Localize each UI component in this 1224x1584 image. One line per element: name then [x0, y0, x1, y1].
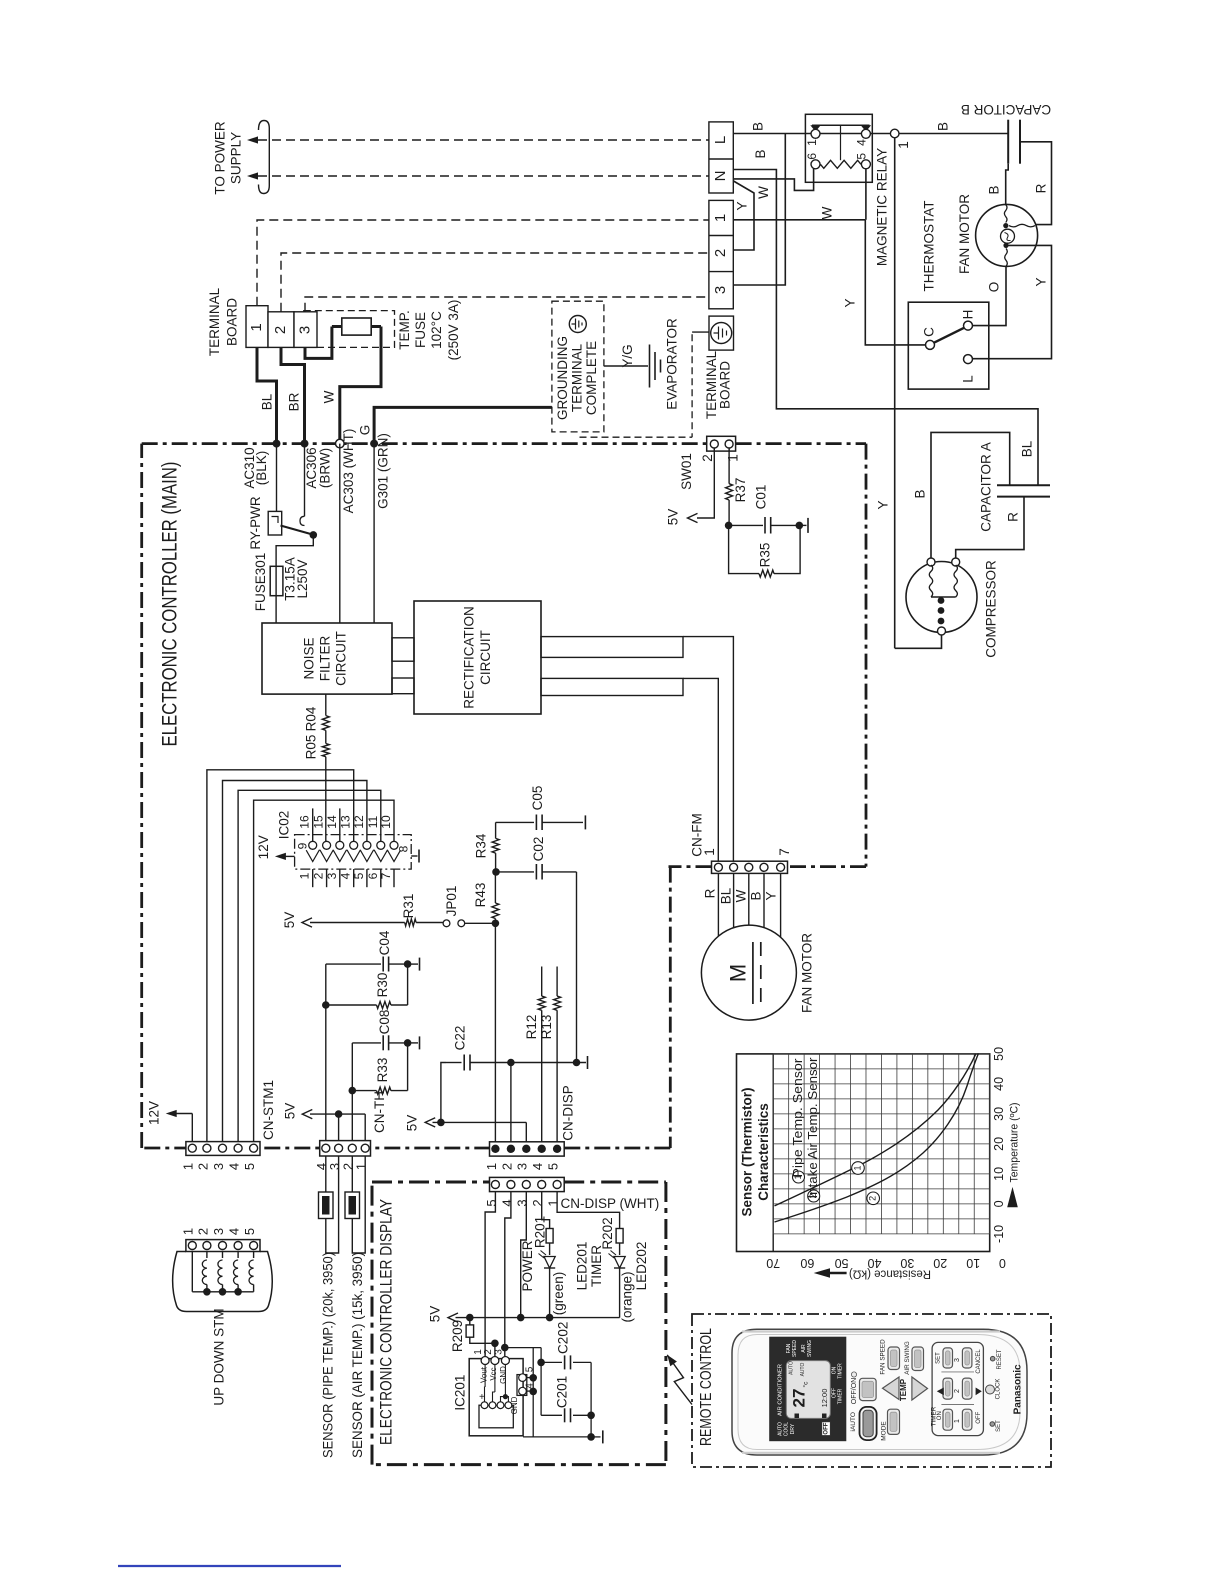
svg-text:C02: C02: [531, 837, 546, 862]
svg-text:4: 4: [227, 1228, 242, 1235]
svg-text:2: 2: [195, 1163, 210, 1170]
svg-text:5: 5: [525, 1366, 536, 1372]
svg-text:L250V: L250V: [295, 559, 310, 598]
svg-text:2: 2: [483, 1349, 494, 1355]
svg-text:SWING: SWING: [807, 1340, 813, 1357]
svg-text:RECTIFICATION: RECTIFICATION: [462, 606, 477, 709]
svg-text:5V: 5V: [283, 1103, 298, 1120]
svg-text:13: 13: [339, 815, 353, 829]
svg-text:FAN MOTOR: FAN MOTOR: [800, 933, 815, 1013]
svg-text:B: B: [936, 122, 951, 131]
svg-text:3: 3: [515, 1163, 530, 1170]
svg-text:R: R: [703, 888, 718, 898]
svg-text:1: 1: [702, 848, 717, 856]
svg-text:102°C: 102°C: [429, 311, 444, 349]
svg-text:CN-STM1: CN-STM1: [261, 1080, 276, 1140]
svg-text:3: 3: [954, 1358, 961, 1362]
svg-text:1: 1: [546, 1199, 561, 1206]
svg-text:20: 20: [933, 1256, 947, 1270]
svg-text:5V: 5V: [428, 1306, 443, 1323]
svg-text:FUSE: FUSE: [413, 312, 428, 348]
svg-text:SPEED: SPEED: [792, 1340, 798, 1357]
svg-text:iAUTO: iAUTO: [850, 1412, 857, 1431]
svg-text:GND: GND: [499, 1366, 508, 1384]
svg-text:B: B: [753, 149, 768, 158]
svg-text:BOARD: BOARD: [224, 298, 239, 346]
svg-text:W: W: [756, 186, 771, 199]
svg-text:R: R: [1034, 183, 1049, 193]
svg-text:O: O: [987, 282, 1002, 293]
svg-text:SENSOR (PIPE TEMP.) (20k, 3950: SENSOR (PIPE TEMP.) (20k, 3950): [321, 1252, 336, 1458]
svg-text:1: 1: [805, 139, 819, 146]
svg-text:-10: -10: [992, 1225, 1006, 1243]
svg-text:(orange): (orange): [619, 1271, 634, 1322]
svg-text:R04: R04: [303, 706, 318, 731]
svg-text:2: 2: [272, 326, 289, 334]
svg-text:M: M: [725, 964, 750, 982]
svg-text:AIR CONDITIONER: AIR CONDITIONER: [778, 1364, 784, 1416]
svg-text:2: 2: [195, 1228, 210, 1235]
svg-text:50: 50: [835, 1256, 849, 1270]
svg-text:IC02: IC02: [277, 811, 292, 840]
svg-text:5: 5: [546, 1163, 561, 1170]
svg-text:IC201: IC201: [452, 1375, 467, 1411]
svg-text:11: 11: [366, 815, 380, 828]
svg-text:12V: 12V: [147, 1101, 162, 1125]
svg-text:C202: C202: [556, 1322, 571, 1354]
svg-text:RY-PWR: RY-PWR: [248, 496, 263, 550]
svg-text:L: L: [961, 375, 976, 383]
svg-text:FAN SPEED: FAN SPEED: [880, 1339, 887, 1375]
svg-text:LED201: LED201: [574, 1242, 589, 1291]
svg-text:7: 7: [379, 872, 393, 879]
svg-text:1: 1: [298, 872, 312, 879]
svg-text:COOL: COOL: [784, 1422, 790, 1436]
svg-text:LED202: LED202: [634, 1242, 649, 1291]
svg-text:5: 5: [854, 153, 868, 160]
svg-text:W: W: [734, 889, 749, 902]
svg-text:3: 3: [296, 326, 313, 334]
svg-text:AIR SWING: AIR SWING: [904, 1341, 911, 1375]
svg-text:4: 4: [339, 872, 353, 879]
svg-text:2: 2: [954, 1389, 961, 1393]
svg-text:COMPLETE: COMPLETE: [584, 341, 599, 415]
svg-text:40: 40: [992, 1077, 1006, 1091]
svg-text:B: B: [751, 122, 766, 131]
svg-text:1: 1: [248, 323, 265, 331]
svg-text:5: 5: [242, 1228, 257, 1235]
svg-text:TIMER: TIMER: [838, 1388, 844, 1404]
svg-text:R12: R12: [524, 1015, 539, 1040]
svg-text:7: 7: [777, 848, 792, 856]
svg-text:1: 1: [354, 1163, 369, 1170]
svg-text:R209: R209: [450, 1320, 465, 1352]
svg-text:FAN MOTOR: FAN MOTOR: [957, 194, 972, 274]
svg-text:1: 1: [954, 1419, 961, 1423]
svg-text:BL: BL: [719, 887, 734, 904]
svg-text:W: W: [322, 390, 337, 403]
svg-text:W: W: [819, 206, 834, 219]
svg-text:TIMER: TIMER: [838, 1363, 844, 1379]
svg-text:BR: BR: [287, 392, 302, 411]
svg-text:ON: ON: [937, 1411, 943, 1420]
svg-text:MAGNETIC RELAY: MAGNETIC RELAY: [875, 148, 890, 266]
svg-text:CIRCUIT: CIRCUIT: [334, 631, 349, 686]
svg-text:AUTO: AUTO: [788, 1361, 794, 1375]
svg-text:1: 1: [896, 141, 911, 149]
svg-text:Y: Y: [1034, 277, 1049, 286]
svg-text:SW01: SW01: [679, 453, 694, 490]
svg-text:CAPACITOR A: CAPACITOR A: [979, 442, 994, 532]
svg-text:1: 1: [484, 1163, 499, 1170]
svg-text:CN-DISP (WHT): CN-DISP (WHT): [561, 1196, 660, 1211]
svg-text:R43: R43: [473, 883, 488, 908]
svg-text:JP01: JP01: [444, 886, 459, 917]
svg-text:1: 1: [726, 454, 741, 462]
svg-text:2: 2: [530, 1199, 545, 1206]
svg-text:NOISE: NOISE: [302, 637, 317, 679]
svg-text:G301 (GRN): G301 (GRN): [375, 433, 390, 509]
svg-text:5V: 5V: [282, 912, 297, 929]
svg-text:2: 2: [712, 249, 729, 257]
svg-text:N: N: [712, 171, 729, 182]
svg-text:4: 4: [499, 1199, 514, 1206]
svg-text:20: 20: [992, 1137, 1006, 1151]
svg-text:COMPRESSOR: COMPRESSOR: [984, 560, 999, 658]
svg-text:3: 3: [211, 1163, 226, 1170]
svg-text:3: 3: [515, 1199, 530, 1206]
svg-text:Pipe Temp. Sensor: Pipe Temp. Sensor: [791, 1059, 805, 1178]
svg-text:8: 8: [397, 845, 411, 852]
svg-text:0: 0: [992, 1200, 1006, 1207]
svg-text:14: 14: [325, 815, 339, 829]
svg-text:1: 1: [712, 214, 729, 222]
svg-text:C: C: [922, 327, 937, 337]
svg-text:H: H: [961, 310, 976, 320]
svg-text:12:00: 12:00: [820, 1389, 829, 1408]
svg-text:5V: 5V: [666, 509, 681, 526]
svg-text:TEMP: TEMP: [899, 1378, 908, 1401]
svg-text:4: 4: [525, 1383, 536, 1389]
svg-text:R: R: [1006, 512, 1021, 522]
svg-text:Y: Y: [876, 500, 891, 509]
svg-text:R202: R202: [600, 1217, 615, 1249]
svg-text:TERMINAL: TERMINAL: [207, 287, 222, 356]
svg-text:16: 16: [298, 815, 312, 829]
svg-text:15: 15: [312, 815, 326, 829]
svg-text:3: 3: [325, 872, 339, 879]
svg-text:(BLK): (BLK): [254, 451, 269, 486]
svg-text:0: 0: [999, 1256, 1006, 1270]
svg-text:1: 1: [852, 1165, 862, 1170]
svg-text:C201: C201: [555, 1376, 570, 1408]
svg-text:MODE: MODE: [881, 1421, 888, 1441]
svg-text:R31: R31: [401, 894, 416, 919]
svg-text:C08: C08: [377, 1010, 392, 1035]
svg-text:Y: Y: [764, 891, 779, 900]
svg-text:3: 3: [211, 1228, 226, 1235]
svg-text:CN-TH: CN-TH: [372, 1091, 387, 1133]
svg-text:OFF/ON: OFF/ON: [851, 1378, 858, 1404]
svg-text:Resistance (kΩ): Resistance (kΩ): [849, 1267, 931, 1279]
svg-text:(250V 3A): (250V 3A): [446, 300, 461, 361]
svg-text:2: 2: [312, 872, 326, 879]
svg-text:FUSE301: FUSE301: [253, 553, 268, 612]
svg-text:10: 10: [966, 1256, 980, 1270]
svg-text:2: 2: [868, 1196, 878, 1201]
svg-text:OFF: OFF: [824, 1422, 830, 1434]
svg-text:5: 5: [484, 1199, 499, 1206]
svg-text:BOARD: BOARD: [718, 361, 733, 409]
svg-text:CLOCK: CLOCK: [995, 1379, 1001, 1400]
svg-text:GROUNDING: GROUNDING: [555, 336, 570, 420]
svg-text:12V: 12V: [256, 835, 271, 859]
svg-text:Vcc: Vcc: [489, 1367, 498, 1380]
svg-text:Panasonic: Panasonic: [1013, 1364, 1024, 1414]
svg-text:Vout: Vout: [479, 1366, 488, 1383]
svg-text:C01: C01: [754, 485, 769, 510]
svg-text:R33: R33: [375, 1058, 390, 1083]
svg-text:CN-DISP: CN-DISP: [560, 1085, 575, 1141]
svg-text:Characteristics: Characteristics: [756, 1103, 771, 1201]
svg-text:CAPACITOR B: CAPACITOR B: [961, 102, 1051, 117]
svg-text:2: 2: [499, 1163, 514, 1170]
svg-text:AC303 (WHT): AC303 (WHT): [341, 429, 356, 514]
svg-text:70: 70: [766, 1256, 780, 1270]
svg-text:G: G: [358, 425, 373, 436]
svg-text:ELECTRONIC CONTROLLER (MAIN): ELECTRONIC CONTROLLER (MAIN): [159, 462, 182, 747]
svg-text:UP DOWN STM: UP DOWN STM: [212, 1308, 227, 1405]
svg-text:60: 60: [800, 1256, 814, 1270]
svg-text:3: 3: [494, 1349, 505, 1355]
svg-text:AUTO: AUTO: [800, 1362, 806, 1376]
svg-text:2: 2: [700, 454, 715, 462]
svg-text:B: B: [749, 891, 764, 900]
svg-text:R34: R34: [473, 833, 488, 858]
svg-text:C04: C04: [377, 930, 392, 955]
svg-text:5V: 5V: [405, 1115, 420, 1132]
svg-text:30: 30: [992, 1107, 1006, 1121]
svg-text:(green): (green): [551, 1272, 566, 1316]
svg-text:Y/G: Y/G: [620, 344, 635, 367]
svg-text:12: 12: [352, 815, 366, 829]
svg-text:CANCEL: CANCEL: [976, 1349, 982, 1374]
svg-text:(BRW): (BRW): [318, 448, 333, 488]
svg-text:Y: Y: [734, 201, 749, 210]
svg-text:REMOTE CONTROL: REMOTE CONTROL: [698, 1328, 715, 1446]
svg-text:1: 1: [181, 1228, 196, 1235]
svg-text:9: 9: [296, 842, 310, 849]
svg-text:TO POWER: TO POWER: [213, 121, 228, 195]
svg-text:R30: R30: [375, 973, 390, 998]
svg-text:3: 3: [712, 286, 729, 294]
svg-text:TEMP.: TEMP.: [397, 310, 412, 350]
svg-text:C05: C05: [530, 786, 545, 811]
svg-text:R201: R201: [532, 1216, 547, 1248]
svg-text:TERMINAL: TERMINAL: [569, 343, 584, 412]
svg-text:ELECTRONIC CONTROLLER DISPLAY: ELECTRONIC CONTROLLER DISPLAY: [377, 1199, 395, 1445]
svg-text:°c: °c: [802, 1381, 810, 1388]
svg-text:L: L: [712, 136, 729, 144]
svg-text:FILTER: FILTER: [318, 636, 333, 682]
svg-text:27: 27: [789, 1389, 808, 1408]
svg-text:B: B: [913, 489, 928, 498]
svg-text:BL: BL: [1020, 440, 1035, 457]
svg-text:CIRCUIT: CIRCUIT: [478, 630, 493, 685]
svg-text:50: 50: [992, 1047, 1006, 1061]
svg-text:5: 5: [352, 872, 366, 879]
svg-text:THERMOSTAT: THERMOSTAT: [922, 201, 937, 292]
svg-text:6: 6: [805, 153, 819, 160]
svg-text:TIMER: TIMER: [589, 1245, 604, 1287]
svg-text:EVAPORATOR: EVAPORATOR: [664, 318, 679, 410]
svg-text:5: 5: [242, 1163, 257, 1170]
svg-text:Sensor (Thermistor): Sensor (Thermistor): [739, 1087, 754, 1216]
svg-text:DRY: DRY: [790, 1423, 796, 1434]
svg-text:Y: Y: [843, 298, 858, 307]
svg-text:B: B: [987, 185, 1002, 194]
svg-text:OFF: OFF: [976, 1411, 982, 1423]
svg-text:Intake Air Temp. Sensor: Intake Air Temp. Sensor: [806, 1058, 820, 1199]
svg-text:Temperature (ºC): Temperature (ºC): [1008, 1103, 1020, 1183]
svg-text:SENSOR (AIR TEMP.) (15k, 3950): SENSOR (AIR TEMP.) (15k, 3950): [350, 1252, 365, 1458]
svg-text:R37: R37: [733, 478, 748, 503]
svg-text:10: 10: [379, 815, 393, 829]
svg-text:SUPPLY: SUPPLY: [229, 132, 244, 184]
svg-text:6: 6: [366, 872, 380, 879]
svg-text:1: 1: [181, 1163, 196, 1170]
svg-text:R13: R13: [539, 1015, 554, 1040]
svg-text:TERMINAL: TERMINAL: [704, 350, 719, 419]
svg-text:SET: SET: [996, 1420, 1002, 1432]
svg-text:4: 4: [854, 139, 868, 146]
svg-text:RESET: RESET: [997, 1349, 1003, 1369]
svg-text:10: 10: [992, 1167, 1006, 1181]
svg-text:SET: SET: [936, 1352, 942, 1364]
svg-text:GND: GND: [510, 1396, 519, 1414]
svg-text:R05: R05: [303, 735, 318, 760]
svg-text:AUTO: AUTO: [777, 1422, 783, 1436]
svg-text:4: 4: [530, 1163, 545, 1170]
svg-text:BL: BL: [260, 393, 275, 410]
svg-text:4: 4: [227, 1163, 242, 1170]
svg-text:R35: R35: [757, 543, 772, 568]
svg-text:C22: C22: [453, 1026, 468, 1051]
